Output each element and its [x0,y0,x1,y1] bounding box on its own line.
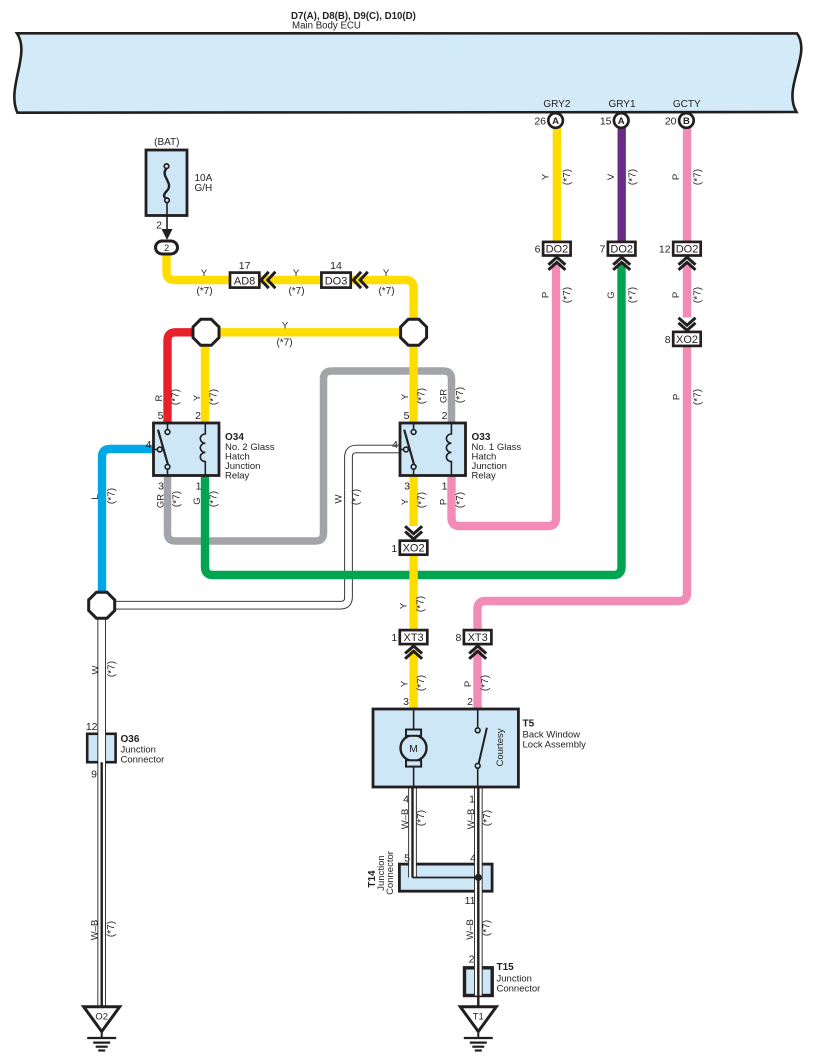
wire Y from XT3 no.1 to T5 pin 3 [409,650,417,710]
svg-text:Relay: Relay [472,471,497,482]
svg-text:3: 3 [403,696,409,708]
pin 20 circle B [665,113,694,128]
wire R from O34 pin 5 to octagon node [168,332,207,423]
svg-text:Main Body ECU: Main Body ECU [292,20,361,31]
svg-text:DO2: DO2 [676,244,699,256]
wire Y from right octagon to O33 pin 5 [409,332,417,423]
svg-text:G: G [606,291,617,298]
label GR (*7) at O33 pin 2 [438,387,466,403]
connector DO2 no.12 [659,242,701,270]
label P (*7) at O33 pin 1 [438,492,466,508]
courtesy switch in T5 [475,709,505,787]
label W-B (*7) under T14 [465,919,493,940]
svg-text:(*7): (*7) [627,169,638,185]
svg-text:2: 2 [469,954,475,966]
svg-text:P: P [540,292,551,298]
svg-text:DO3: DO3 [325,275,348,287]
T5 Back Window Lock Assembly box [373,709,586,787]
svg-text:(*7): (*7) [416,492,427,508]
svg-text:2: 2 [195,410,201,422]
label W (*7) below lower octagon [90,661,117,677]
wire P from XO2 no.8 to XT3 no.8 [478,347,688,631]
svg-text:(*7): (*7) [416,810,427,826]
O36 name label [121,734,165,766]
svg-text:O2: O2 [95,1012,108,1023]
node octagon left [193,319,219,345]
svg-text:(*7): (*7) [562,169,573,185]
connector XO2 no.8 [665,318,701,346]
label P (*7) below XO2-8 [671,389,703,405]
svg-text:T15: T15 [497,962,515,973]
svg-text:4: 4 [470,853,476,865]
svg-text:5: 5 [404,853,410,865]
junction T14 internal link and node [413,874,482,881]
wire GR from O34 pin 3 to O33 pin 2 [168,371,452,541]
connector XT3 no.8 [455,630,491,659]
svg-text:5: 5 [158,410,164,422]
svg-text:(*7): (*7) [106,921,117,937]
svg-text:(*7): (*7) [455,492,466,508]
junction connector T14 box [399,864,492,891]
svg-text:2: 2 [442,410,448,422]
svg-text:(*7): (*7) [288,286,304,297]
label Y (*7) node2 to AD8 [196,268,212,297]
svg-text:2: 2 [467,696,473,708]
svg-text:12: 12 [659,244,671,256]
label Y (*7) between XO2-1 and XT3-1 [398,596,426,612]
svg-text:XT3: XT3 [468,632,488,644]
svg-text:XO2: XO2 [403,543,425,555]
label Y (*7) on GRY2 wire [540,169,573,185]
T14 name label rotated [367,851,396,895]
svg-text:G/H: G/H [195,183,213,194]
svg-text:M: M [409,743,418,755]
svg-text:Connector: Connector [497,984,541,995]
wire V from GRY1 pin 15 to DO2 no.7 [618,126,626,242]
svg-text:W: W [333,494,344,503]
wire Y from node 2 through AD8 to DO3 [167,256,414,333]
ground T1 [460,1007,496,1051]
svg-text:7: 7 [599,244,605,256]
label P (*7) on GCTY wire [671,169,704,185]
label P (*7) DO2-6 wire [540,287,573,303]
wire W from node octagon to O33 pin 4 [102,449,400,605]
svg-text:Courtesy: Courtesy [495,728,506,766]
motor M in T5 [401,709,427,787]
wire P from O33 pin 1 to DO2 no.6 [452,263,557,526]
svg-text:W–B: W–B [89,920,100,941]
label W-B (*7) under T5 pin 4 [400,809,427,830]
svg-text:Y: Y [400,393,411,400]
svg-text:XT3: XT3 [404,632,424,644]
svg-text:(*7): (*7) [480,675,491,691]
svg-text:GR: GR [438,389,449,403]
svg-text:9: 9 [91,769,97,781]
wire Y from left octagon to O34 pin 2 [201,332,209,423]
svg-text:V: V [606,173,617,180]
svg-text:Y: Y [192,394,203,401]
connector DO3 [321,260,367,288]
svg-text:(*7): (*7) [208,491,219,507]
svg-text:GR: GR [155,494,166,508]
svg-text:XO2: XO2 [676,334,698,346]
label R (*7) at O34 pin 5 [154,389,182,405]
svg-text:(*7): (*7) [455,387,466,403]
svg-text:DO2: DO2 [546,244,569,256]
wire Y from XO2 no.1 to XT3 no.1 [409,555,417,631]
svg-text:14: 14 [330,260,342,272]
wire fuse lead to node 2 [156,202,172,240]
svg-text:(*7): (*7) [170,389,181,405]
svg-text:(*7): (*7) [562,287,573,303]
wire P from XT3 no.8 to T5 pin 2 [473,650,481,710]
svg-text:26: 26 [534,116,546,128]
wire Y between octagon nodes [206,328,414,336]
wire Y from O33 pin 3 to XO2 no.1 [409,475,417,526]
svg-text:GRY1: GRY1 [608,99,635,110]
svg-text:20: 20 [665,116,677,128]
svg-text:(*7): (*7) [416,388,427,404]
svg-text:3: 3 [158,481,164,493]
label P (*7) DO2-12 wire [671,287,704,303]
svg-text:(*7): (*7) [378,286,394,297]
connector XO2 no.1 [391,526,427,555]
svg-text:GCTY: GCTY [673,99,701,110]
label W-B (*7) above ground O2 [89,920,117,941]
svg-text:O36: O36 [121,734,140,745]
svg-text:R: R [154,394,165,401]
wire P from DO2 no.12 to XO2 no.8 [683,263,691,318]
svg-text:A: A [552,116,559,127]
svg-text:Y: Y [399,680,410,687]
svg-text:AD8: AD8 [234,275,255,287]
svg-text:5: 5 [404,410,410,422]
label Y (*7) AD8 to DO3 [288,268,304,297]
svg-text:W–B: W–B [400,809,411,830]
label Y (*7) at O34 pin 2 [192,389,220,405]
label G (*7) DO2-7 wire [606,287,639,303]
svg-text:(*7): (*7) [276,338,292,349]
svg-text:Y: Y [383,268,390,279]
connector DO2 no.6 [535,242,571,270]
svg-text:(*7): (*7) [692,389,703,405]
svg-text:1: 1 [196,481,202,493]
svg-text:GRY2: GRY2 [543,99,570,110]
svg-text:(*7): (*7) [351,489,362,505]
svg-text:(*7): (*7) [106,661,117,677]
junction connector O36 box [87,734,115,762]
svg-text:(BAT): (BAT) [154,137,179,148]
pin 26 circle A [534,113,563,128]
svg-text:11: 11 [465,895,476,907]
relay O34 No. 2 Glass Hatch Junction Relay [154,423,275,482]
label W (*7) on white wire near O33 [333,489,362,505]
svg-text:L: L [90,494,101,499]
svg-text:4: 4 [146,439,152,451]
svg-text:(*7): (*7) [106,488,117,504]
label W-B (*7) under T5 pin 1 [466,809,493,830]
svg-text:P: P [671,292,682,298]
wire W / W-B from node octagon through O36 to ground O2 [97,605,106,1006]
label G (*7) at O34 pin 1 [192,491,220,507]
svg-text:G: G [192,497,203,504]
svg-text:Lock Assembly: Lock Assembly [523,740,587,751]
wire L from octagon node to O34 pin 4 [102,449,154,605]
svg-text:Y: Y [293,268,300,279]
svg-text:(*7): (*7) [482,810,493,826]
svg-text:8: 8 [455,632,461,644]
svg-text:12: 12 [86,721,98,733]
svg-text:(*7): (*7) [692,287,703,303]
label P (*7) above T5 pin 2 [463,675,491,691]
svg-text:1: 1 [442,481,448,493]
svg-text:Y: Y [201,268,208,279]
label Y (*7) at O33 pin 3 [400,492,428,508]
wire Y from GRY2 pin 26 to DO2 no.6 [553,126,561,242]
ground O2 [84,1007,120,1051]
svg-text:W–B: W–B [466,809,477,830]
svg-text:(*7): (*7) [416,675,427,691]
svg-text:(*7): (*7) [692,169,703,185]
wire P from GCTY pin 20 to DO2 no.12 [683,126,691,242]
node octagon lower left [89,592,115,618]
svg-text:(*7): (*7) [208,389,219,405]
svg-text:1: 1 [469,794,475,806]
svg-text:P: P [463,681,474,687]
svg-text:A: A [618,116,625,127]
svg-text:2: 2 [156,220,162,232]
label Y (*7) DO3 to octagon [378,268,394,297]
connector XT3 no.1 [391,630,427,659]
svg-text:(*7): (*7) [481,920,492,936]
svg-text:P: P [671,174,682,180]
svg-text:P: P [671,394,682,400]
svg-text:8: 8 [665,334,671,346]
connector DO2 no.7 [599,242,635,270]
relay O33 No. 1 Glass Hatch Junction Relay [400,423,521,482]
fuse 10A G/H (BAT) [146,137,213,216]
svg-text:W–B: W–B [465,919,476,940]
node octagon right [401,319,427,345]
svg-text:(*7): (*7) [171,491,182,507]
label Y (*7) above T5 pin 3 [399,675,427,691]
label Y (*7) at O33 pin 5 [400,388,428,404]
svg-text:Y: Y [540,173,551,180]
T15 name label [497,962,541,995]
wire T15 lead to ground T1 [477,996,479,1008]
svg-text:B: B [683,116,690,127]
svg-text:P: P [438,499,449,505]
ECU band Main Body ECU [14,33,801,112]
svg-text:6: 6 [535,244,541,256]
svg-text:Connector: Connector [121,755,165,766]
svg-text:T5: T5 [523,719,535,730]
svg-text:Relay: Relay [225,471,250,482]
pin 15 circle A [600,113,629,128]
svg-text:T1: T1 [473,1012,484,1023]
svg-text:15: 15 [600,116,612,128]
svg-text:Y: Y [398,602,409,609]
svg-text:W: W [90,665,101,674]
label GR (*7) at O34 pin 3 [155,491,182,508]
svg-text:1: 1 [391,632,397,644]
node 2 circle [156,241,178,254]
svg-text:(*7): (*7) [196,286,212,297]
svg-text:Y: Y [400,498,411,505]
svg-text:DO2: DO2 [610,244,633,256]
svg-text:4: 4 [403,794,409,806]
svg-text:Connector: Connector [385,851,396,895]
label L (*7) on blue wire [90,488,118,504]
svg-text:3: 3 [404,481,410,493]
svg-text:Y: Y [282,321,289,332]
wire W-B from T5 pin 4 to T14 pin 5 [408,787,417,878]
svg-text:4: 4 [392,439,398,451]
svg-text:1: 1 [391,543,397,555]
svg-text:2: 2 [164,243,169,253]
wire G from O34 pin 1 to DO2 no.7 [205,263,622,575]
svg-text:17: 17 [239,260,251,272]
label Y (*7) octagon to octagon [276,321,292,349]
connector AD8 [230,260,275,288]
svg-text:(*7): (*7) [627,287,638,303]
wire W-B from T5 pin 1 through T14 to T15 [474,787,483,996]
svg-text:(*7): (*7) [415,596,426,612]
label V (*7) on GRY1 wire [606,169,639,185]
junction connector T15 box [465,968,493,996]
